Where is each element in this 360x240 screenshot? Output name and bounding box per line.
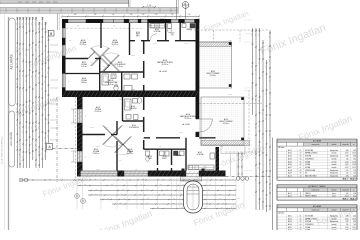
svg-text:75/210: 75/210 [228, 94, 232, 96]
svg-text:150/150: 150/150 [160, 18, 164, 20]
svg-text:10,21 m²: 10,21 m² [112, 43, 119, 46]
svg-text:0,90: 0,90 [67, 81, 69, 84]
svg-text:3,60: 3,60 [18, 154, 20, 157]
svg-text:12,32: 12,32 [352, 161, 356, 163]
svg-text:3,60: 3,60 [38, 127, 40, 130]
svg-text:12,32: 12,32 [345, 227, 349, 229]
svg-text:1,00: 1,00 [90, 62, 93, 64]
svg-text:A2 LAKÁS: A2 LAKÁS [313, 205, 322, 208]
svg-text:04: 04 [300, 158, 302, 160]
svg-text:0,90: 0,90 [31, 47, 33, 50]
svg-text:4,05: 4,05 [204, 139, 207, 141]
svg-text:3,60: 3,60 [16, 23, 18, 26]
svg-text:3,60: 3,60 [25, 106, 27, 109]
svg-text:0,90: 0,90 [44, 50, 46, 53]
svg-text:0,90: 0,90 [262, 113, 264, 116]
svg-text:75/210: 75/210 [184, 43, 188, 45]
svg-text:3,60: 3,60 [121, 193, 124, 195]
svg-text:90/210: 90/210 [228, 40, 232, 42]
svg-text:0,90: 0,90 [28, 149, 30, 152]
svg-text:09: 09 [300, 173, 302, 175]
svg-text:3,60: 3,60 [22, 48, 24, 51]
svg-text:4,05: 4,05 [146, 189, 149, 191]
svg-text:A1 LAKÁS: A1 LAKÁS [9, 132, 13, 146]
svg-text:3,60: 3,60 [41, 153, 43, 156]
svg-text:✚ +0,00: ✚ +0,00 [159, 70, 167, 73]
svg-text:1,25: 1,25 [34, 126, 36, 129]
svg-text:4,60: 4,60 [353, 150, 356, 152]
svg-text:0,90: 0,90 [106, 127, 109, 129]
svg-text:4,05: 4,05 [44, 28, 46, 31]
svg-text:1,00: 1,00 [22, 75, 24, 78]
svg-text:02: 02 [300, 153, 302, 155]
svg-text:2,35: 2,35 [163, 193, 166, 195]
svg-text:0,90: 0,90 [262, 75, 264, 78]
svg-text:1,00: 1,00 [47, 72, 49, 75]
svg-text:1,00: 1,00 [265, 147, 267, 150]
svg-text:4,05: 4,05 [31, 23, 33, 26]
svg-text:3,60: 3,60 [182, 184, 185, 186]
svg-text:B: B [50, 32, 52, 36]
svg-text:3,60: 3,60 [251, 86, 253, 89]
svg-text:1,25: 1,25 [38, 28, 40, 31]
svg-text:1,00: 1,00 [219, 193, 222, 195]
svg-text:2,35: 2,35 [255, 179, 257, 182]
svg-text:2,35: 2,35 [25, 23, 27, 26]
svg-text:90/210: 90/210 [153, 43, 157, 45]
svg-text:1,25: 1,25 [262, 137, 264, 140]
svg-text:WC: WC [305, 173, 307, 175]
svg-text:1,00: 1,00 [173, 198, 176, 200]
svg-text:03: 03 [300, 221, 302, 223]
svg-text:2,35: 2,35 [28, 105, 30, 108]
svg-text:1,25: 1,25 [16, 124, 18, 127]
svg-text:12,32 m²: 12,32 m² [95, 110, 102, 113]
svg-text:04: 04 [300, 224, 302, 226]
svg-text:1,00: 1,00 [44, 137, 46, 140]
svg-text:4,05: 4,05 [140, 184, 143, 186]
svg-text:3,60: 3,60 [28, 49, 30, 52]
svg-text:12,32 m²: 12,32 m² [80, 43, 87, 46]
svg-text:4,05: 4,05 [157, 207, 160, 209]
svg-text:4,05: 4,05 [162, 178, 165, 180]
svg-text:150/150: 150/150 [131, 89, 135, 91]
svg-text:150/150: 150/150 [96, 146, 100, 148]
svg-text:0,90: 0,90 [142, 14, 145, 16]
svg-text:2,90: 2,90 [155, 14, 158, 16]
svg-text:4,05: 4,05 [188, 178, 191, 180]
svg-text:90/210: 90/210 [148, 25, 152, 27]
svg-text:1,25: 1,25 [31, 127, 33, 130]
svg-text:05: 05 [300, 161, 302, 163]
svg-text:1,25: 1,25 [38, 46, 40, 49]
svg-text:4,05: 4,05 [95, 189, 98, 191]
svg-text:1,25: 1,25 [78, 178, 81, 180]
svg-text:2,35: 2,35 [269, 36, 271, 39]
svg-text:4,05: 4,05 [222, 202, 225, 204]
svg-text:12,32: 12,32 [345, 161, 349, 163]
svg-text:1,25: 1,25 [262, 175, 264, 178]
svg-text:4,60: 4,60 [346, 215, 349, 217]
svg-text:3,60: 3,60 [41, 119, 43, 122]
svg-text:4,05: 4,05 [221, 146, 224, 148]
svg-text:26,25: 26,25 [352, 218, 356, 220]
svg-text:75/210: 75/210 [118, 99, 122, 101]
svg-text:8,92: 8,92 [353, 156, 356, 158]
svg-text:07: 07 [300, 167, 302, 169]
svg-text:0,90: 0,90 [34, 49, 36, 52]
svg-text:7,45: 7,45 [353, 224, 356, 226]
svg-text:2,35: 2,35 [16, 108, 18, 111]
svg-text:0,90: 0,90 [255, 34, 257, 37]
svg-text:1,00: 1,00 [18, 75, 20, 78]
svg-text:0,90: 0,90 [160, 184, 163, 186]
svg-text:1,25: 1,25 [269, 60, 271, 63]
svg-text:150/150: 150/150 [131, 55, 135, 57]
svg-text:1,00: 1,00 [265, 198, 267, 201]
svg-text:2,35: 2,35 [258, 145, 260, 148]
svg-text:A2 LAKÁS: A2 LAKÁS [9, 54, 13, 69]
svg-text:1,00: 1,00 [34, 75, 36, 78]
svg-text:0,90: 0,90 [22, 109, 24, 112]
svg-text:A1 LAKÁS: A1 LAKÁS [313, 140, 322, 143]
svg-text:1,55: 1,55 [346, 173, 349, 175]
svg-text:1,00: 1,00 [269, 209, 271, 212]
svg-text:26,25: 26,25 [345, 153, 349, 155]
svg-text:1,00: 1,00 [22, 131, 24, 134]
svg-text:2,35: 2,35 [47, 135, 49, 138]
svg-text:A1-A2 IKERHÁZ ALAPRAJZ: A1-A2 IKERHÁZ ALAPRAJZ [1, 135, 4, 163]
svg-text:0,90: 0,90 [31, 143, 33, 146]
svg-text:10,21: 10,21 [352, 167, 356, 169]
svg-text:3,60: 3,60 [84, 184, 87, 186]
svg-text:7,45 m²: 7,45 m² [117, 65, 123, 68]
svg-text:1,00: 1,00 [265, 174, 267, 177]
svg-text:3,60: 3,60 [34, 144, 36, 147]
svg-text:5,20: 5,20 [353, 170, 356, 172]
svg-text:4,05: 4,05 [67, 49, 69, 52]
svg-text:1,00: 1,00 [103, 66, 106, 68]
svg-text:1,00: 1,00 [135, 169, 138, 171]
svg-text:1,25: 1,25 [34, 164, 36, 167]
svg-text:4,05: 4,05 [47, 119, 49, 122]
svg-text:0,90: 0,90 [258, 202, 260, 205]
svg-text:1,25: 1,25 [122, 178, 125, 180]
svg-text:1,25: 1,25 [255, 127, 257, 130]
svg-text:0,90: 0,90 [255, 99, 257, 102]
svg-text:1,25: 1,25 [123, 198, 126, 200]
svg-text:10,21 m²: 10,21 m² [127, 152, 134, 155]
svg-text:1,25: 1,25 [119, 202, 122, 204]
svg-text:1,25: 1,25 [31, 76, 33, 79]
svg-text:1,25: 1,25 [28, 127, 30, 130]
svg-text:26,25: 26,25 [345, 218, 349, 220]
svg-text:1,25: 1,25 [18, 109, 20, 112]
svg-text:08: 08 [300, 170, 302, 172]
svg-text:4,60: 4,60 [353, 215, 356, 217]
svg-text:4,05: 4,05 [16, 83, 18, 86]
svg-text:1,25: 1,25 [28, 23, 30, 26]
svg-text:3,60: 3,60 [74, 14, 77, 16]
svg-text:05: 05 [300, 227, 302, 229]
svg-text:A1 TÁROLÓ, TERASZ: A1 TÁROLÓ, TERASZ [308, 185, 325, 188]
svg-text:1,25: 1,25 [265, 118, 267, 121]
svg-text:1,00: 1,00 [31, 107, 33, 110]
svg-text:150/150: 150/150 [179, 132, 183, 134]
svg-text:4,05: 4,05 [38, 101, 40, 104]
svg-text:2,46: 2,46 [237, 165, 239, 168]
svg-text:4,05: 4,05 [22, 156, 24, 159]
svg-text:4,60: 4,60 [346, 150, 349, 152]
svg-text:13,65 m²: 13,65 m² [93, 152, 100, 155]
svg-text:2,35: 2,35 [38, 169, 40, 172]
svg-text:4,05: 4,05 [107, 198, 110, 200]
svg-text:2,35: 2,35 [142, 178, 145, 180]
svg-text:2,60: 2,60 [188, 14, 191, 16]
svg-text:0,90: 0,90 [16, 47, 18, 50]
svg-text:3,45: 3,45 [112, 14, 115, 16]
svg-text:0,90: 0,90 [269, 134, 271, 137]
svg-text:4,05: 4,05 [25, 144, 27, 147]
svg-text:2,35: 2,35 [122, 189, 125, 191]
svg-text:8,92: 8,92 [353, 221, 356, 223]
svg-text:5,06: 5,06 [346, 193, 349, 195]
svg-text:10,21: 10,21 [345, 167, 349, 169]
svg-text:12,32: 12,32 [352, 227, 356, 229]
svg-text:4,05: 4,05 [47, 99, 49, 102]
svg-text:1,00: 1,00 [18, 48, 20, 51]
svg-text:3,60: 3,60 [258, 62, 260, 65]
svg-text:8,92: 8,92 [346, 221, 349, 223]
svg-text:1,40: 1,40 [130, 14, 133, 16]
svg-text:75/210: 75/210 [90, 127, 94, 129]
svg-text:8,92: 8,92 [346, 156, 349, 158]
svg-text:2,35: 2,35 [172, 202, 175, 204]
svg-text:2,35: 2,35 [237, 198, 240, 200]
svg-text:1,50: 1,50 [77, 25, 80, 27]
svg-text:2,35: 2,35 [85, 156, 87, 159]
svg-text:2,35: 2,35 [38, 151, 40, 154]
svg-text:1,00: 1,00 [85, 115, 87, 118]
svg-text:1,00: 1,00 [258, 34, 260, 37]
svg-text:1,25: 1,25 [44, 81, 46, 84]
svg-text:1,85: 1,85 [94, 14, 97, 16]
svg-text:0,90: 0,90 [221, 207, 224, 209]
svg-text:150/150: 150/150 [158, 94, 162, 96]
svg-text:1,00: 1,00 [119, 160, 122, 162]
svg-text:4,05: 4,05 [47, 56, 49, 59]
svg-text:2,35: 2,35 [16, 146, 18, 149]
svg-text:1,55: 1,55 [353, 173, 356, 175]
svg-text:0,90: 0,90 [34, 23, 36, 26]
svg-text:1,00: 1,00 [28, 74, 30, 77]
svg-text:3,60: 3,60 [41, 68, 43, 71]
svg-text:1,25: 1,25 [18, 23, 20, 26]
svg-text:5,20: 5,20 [346, 170, 349, 172]
svg-text:1,25: 1,25 [251, 66, 253, 69]
svg-text:✚ +0,00: ✚ +0,00 [182, 123, 190, 126]
svg-text:3,60: 3,60 [269, 187, 271, 190]
svg-text:1,25: 1,25 [25, 54, 27, 57]
svg-text:0,90: 0,90 [262, 205, 264, 208]
svg-text:26,25 m²: 26,25 m² [185, 117, 192, 120]
svg-text:1,00: 1,00 [262, 46, 264, 49]
svg-text:11: 11 [300, 193, 302, 195]
svg-text:26,25: 26,25 [352, 153, 356, 155]
svg-text:1,00: 1,00 [44, 109, 46, 112]
svg-text:2,35: 2,35 [269, 107, 271, 110]
svg-text:7,45: 7,45 [346, 224, 349, 226]
svg-text:150/150: 150/150 [96, 169, 100, 171]
svg-text:0,90: 0,90 [258, 125, 260, 128]
svg-text:WC: WC [171, 34, 173, 36]
svg-text:3,60: 3,60 [49, 178, 52, 180]
svg-text:26,25 m²: 26,25 m² [162, 63, 169, 66]
svg-text:0,90: 0,90 [209, 184, 212, 186]
svg-text:03: 03 [300, 156, 302, 158]
svg-text:1,00: 1,00 [255, 157, 257, 160]
svg-text:01: 01 [300, 215, 302, 217]
svg-text:7,45: 7,45 [346, 158, 349, 160]
svg-text:02: 02 [300, 218, 302, 220]
svg-text:3,60: 3,60 [38, 77, 40, 80]
svg-text:1,00: 1,00 [215, 178, 218, 180]
svg-text:3,60: 3,60 [251, 34, 253, 37]
svg-text:0,90: 0,90 [258, 100, 260, 103]
svg-text:1,25: 1,25 [269, 80, 271, 83]
svg-text:06: 06 [300, 164, 302, 166]
svg-text:2,35: 2,35 [44, 155, 46, 158]
svg-text:2,35: 2,35 [181, 207, 184, 209]
svg-text:0,90: 0,90 [166, 189, 169, 191]
svg-text:1,00: 1,00 [258, 167, 260, 170]
svg-text:2,35: 2,35 [219, 198, 222, 200]
svg-text:5,20 m²: 5,20 m² [108, 83, 114, 86]
svg-text:2,35: 2,35 [34, 101, 36, 104]
svg-text:1,00: 1,00 [197, 18, 200, 20]
svg-text:4,05: 4,05 [16, 63, 18, 66]
svg-text:7,45: 7,45 [353, 158, 356, 160]
svg-text:13,65: 13,65 [352, 164, 356, 166]
svg-text:2,35: 2,35 [147, 198, 150, 200]
svg-text:2,35: 2,35 [41, 88, 43, 91]
svg-text:0,90: 0,90 [146, 202, 149, 204]
svg-text:1,00: 1,00 [111, 184, 114, 186]
svg-text:3,60: 3,60 [208, 189, 211, 191]
svg-text:1,00: 1,00 [139, 193, 142, 195]
svg-text:HELY.: HELY. [136, 35, 140, 37]
svg-text:megnevezés: megnevezés [312, 210, 320, 212]
svg-text:5,06: 5,06 [353, 193, 356, 195]
svg-text:1,50: 1,50 [113, 25, 116, 27]
svg-text:2,35: 2,35 [265, 93, 267, 96]
svg-text:1,50: 1,50 [69, 40, 72, 42]
svg-text:1,95: 1,95 [171, 14, 174, 16]
svg-text:4,05: 4,05 [159, 146, 162, 148]
svg-text:3,60: 3,60 [95, 193, 98, 195]
svg-text:13,65: 13,65 [345, 164, 349, 166]
svg-text:01: 01 [300, 150, 302, 152]
svg-text:2,46: 2,46 [241, 165, 243, 168]
svg-text:megnevezés: megnevezés [312, 190, 320, 192]
svg-text:1,25: 1,25 [269, 163, 271, 166]
svg-text:0,90: 0,90 [265, 66, 267, 69]
svg-text:0,90: 0,90 [41, 23, 43, 26]
svg-text:1,25: 1,25 [94, 178, 97, 180]
svg-text:2,35: 2,35 [255, 69, 257, 72]
svg-text:0,90: 0,90 [25, 126, 27, 129]
svg-text:4,05: 4,05 [22, 23, 24, 26]
svg-text:4,05: 4,05 [25, 80, 27, 83]
svg-text:megnevezés: megnevezés [312, 144, 320, 146]
svg-text:1,25: 1,25 [41, 41, 43, 44]
svg-text:1,00: 1,00 [18, 127, 20, 130]
